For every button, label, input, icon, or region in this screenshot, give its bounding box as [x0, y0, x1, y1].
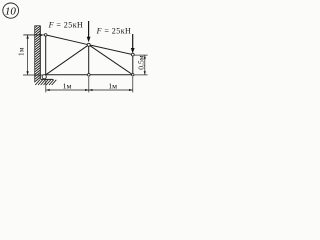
svg-text:1м: 1м — [17, 47, 25, 56]
force F2 arrow — [131, 34, 135, 53]
svg-text:F = 25кН: F = 25кН — [96, 26, 132, 35]
diagonal C-F — [89, 45, 133, 75]
top support link + extension line — [23, 34, 45, 36]
right vertical D-F — [132, 55, 134, 75]
force F1 arrow — [87, 21, 91, 42]
bottom chord B-E-F — [46, 74, 133, 76]
left dimension line 1m — [27, 35, 29, 74]
diagonal B-C — [46, 45, 89, 75]
svg-text:1м: 1м — [63, 82, 72, 91]
svg-text:10: 10 — [5, 5, 17, 17]
wall anchor dot — [40, 34, 42, 36]
node F — [132, 74, 134, 76]
svg-text:1м: 1м — [108, 82, 117, 91]
node D — [131, 53, 134, 56]
bottom extension to dim — [23, 74, 46, 76]
svg-text:0,5м: 0,5м — [137, 55, 146, 69]
truss members — [46, 35, 133, 75]
top chord right C-D — [89, 45, 133, 55]
mid vertical C-E — [88, 45, 90, 75]
node C — [87, 43, 90, 46]
wall — [35, 26, 41, 83]
svg-text:F = 25кН: F = 25кН — [48, 20, 84, 29]
wall hatch — [35, 23, 41, 81]
node A pin — [44, 34, 47, 37]
ground line under pin — [41, 78, 54, 80]
bottom dimension lines — [46, 77, 133, 93]
top chord left A-C — [46, 35, 89, 45]
ground hatch — [35, 80, 56, 85]
node E — [88, 74, 91, 77]
problem number badge 10 — [3, 3, 19, 18]
left vertical A-B — [45, 35, 47, 75]
support pin B — [42, 75, 46, 79]
right dimension 0.5m — [134, 55, 147, 75]
